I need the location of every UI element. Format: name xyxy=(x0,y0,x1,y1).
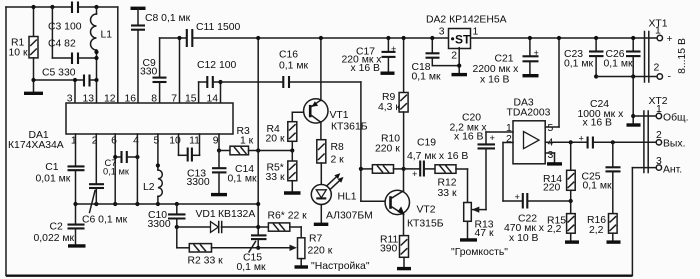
ground under R13 xyxy=(460,238,477,241)
capacitor C5 xyxy=(31,68,98,87)
svg-text:-: - xyxy=(668,72,671,83)
svg-text:C5 330: C5 330 xyxy=(42,68,76,79)
wire: DA2 pin 2 to ground xyxy=(457,48,461,73)
wire: DA1 pin 9 down xyxy=(218,134,220,151)
resistor R9 xyxy=(378,36,408,169)
svg-text:х 16 В: х 16 В xyxy=(480,75,510,86)
wire: DA3 pin 5 to supply rail xyxy=(545,36,561,127)
svg-text:х 16 В: х 16 В xyxy=(583,118,613,129)
ground under R11 xyxy=(397,267,411,270)
svg-text:Ант.: Ант. xyxy=(663,165,682,176)
svg-text:C4 82: C4 82 xyxy=(48,39,76,50)
capacitor C1 on DA1 pin 1 xyxy=(36,134,85,204)
ground under R16 xyxy=(607,240,621,243)
potentiometer R7 "Настройка" xyxy=(298,227,370,272)
svg-text:7: 7 xyxy=(171,94,177,105)
svg-text:12: 12 xyxy=(104,94,116,105)
IC DA1 К174ХА34А xyxy=(8,94,233,152)
capacitor C2 xyxy=(34,204,85,245)
resistor R11 xyxy=(380,235,409,268)
connector XT1 xyxy=(645,19,689,83)
svg-text:220 к: 220 к xyxy=(308,246,333,257)
resistor R6* xyxy=(258,211,307,232)
svg-text:х 16 В: х 16 В xyxy=(351,63,381,74)
svg-text:3: 3 xyxy=(439,27,445,38)
svg-text:220 к: 220 к xyxy=(375,144,400,155)
svg-text:3: 3 xyxy=(656,156,662,167)
svg-text:х 16 В: х 16 В xyxy=(454,132,484,143)
resistor R14 xyxy=(543,142,575,203)
svg-text:C6 0,1 мк: C6 0,1 мк xyxy=(82,215,128,226)
wire: vertical from XT1 minus to XT2 common xyxy=(631,77,635,124)
svg-text:47 к: 47 к xyxy=(475,228,494,239)
svg-text:16: 16 xyxy=(124,94,136,105)
wire: DA1 pin 14 up to C12 node xyxy=(218,80,222,103)
svg-text:АЛ307БМ: АЛ307БМ xyxy=(326,211,373,222)
svg-text:0,022 мк: 0,022 мк xyxy=(34,233,75,244)
capacitor C15 xyxy=(237,235,267,273)
capacitor C19 xyxy=(404,138,469,180)
wire: DA1 pin 4 down to rail xyxy=(136,134,138,204)
svg-text:C2: C2 xyxy=(50,222,64,233)
svg-text:6: 6 xyxy=(111,136,117,147)
svg-text:15: 15 xyxy=(185,94,197,105)
svg-text:2: 2 xyxy=(654,63,660,74)
varicap VD1 КВ132А xyxy=(175,209,259,233)
capacitor C13 between pins 10 and 11 xyxy=(179,134,210,188)
svg-text:+: + xyxy=(579,134,584,144)
capacitor C16 xyxy=(279,50,361,89)
wire: base bus x361 from y82 down to VT2 base xyxy=(359,82,386,201)
ground under HL1 xyxy=(314,223,329,226)
LED HL1 АЛ307БМ xyxy=(311,173,372,223)
wire: main horizontal rail y38 xyxy=(193,37,657,39)
capacitor C3 xyxy=(48,2,82,33)
svg-text:1: 1 xyxy=(473,27,479,38)
wire: minus wire y76.5 to XT1 pin 2 xyxy=(596,74,657,78)
wire: DA3 pin 4 output xyxy=(545,140,587,144)
svg-text:VD1: VD1 xyxy=(196,209,216,220)
svg-text:20 к: 20 к xyxy=(266,134,285,145)
svg-text:13: 13 xyxy=(82,94,94,105)
ground under C17 xyxy=(381,71,395,74)
wire: signal wire y82 from C12 node to C16 xyxy=(221,81,283,83)
resistor R4 xyxy=(266,122,297,153)
ground under C14 xyxy=(211,193,227,196)
svg-text:2: 2 xyxy=(451,51,457,62)
wire: DA1 pin 7 up to y38 rail xyxy=(177,36,181,103)
svg-text:5: 5 xyxy=(548,123,554,134)
svg-text:К174ХА34А: К174ХА34А xyxy=(8,140,64,151)
svg-text:C1: C1 xyxy=(45,162,59,173)
inductor L2 on DA1 pin 5 xyxy=(143,134,162,204)
svg-text:330: 330 xyxy=(140,67,158,78)
capacitor C14 xyxy=(212,151,257,194)
svg-text:R2 33 к: R2 33 к xyxy=(188,256,224,267)
audio amplifier DA3 TDA2003 xyxy=(506,98,553,164)
capacitor C22 xyxy=(504,192,571,244)
svg-text:ST: ST xyxy=(455,33,471,47)
ground under R5 xyxy=(284,191,301,194)
svg-text:14: 14 xyxy=(206,94,218,105)
svg-text:4,7 мк х 16 В: 4,7 мк х 16 В xyxy=(407,151,468,162)
svg-text:+: + xyxy=(391,44,396,54)
capacitor C23 xyxy=(564,36,604,79)
resistor R16 xyxy=(587,214,617,241)
svg-text:Вых.: Вых. xyxy=(663,139,685,150)
svg-text:C12 100: C12 100 xyxy=(197,60,237,71)
capacitor C9 on DA1 pin 8 xyxy=(140,38,186,103)
svg-text:3: 3 xyxy=(548,150,554,161)
svg-text:КВ132А: КВ132А xyxy=(218,209,255,220)
resistor R1 xyxy=(9,7,39,92)
voltage regulator DA2 КР142ЕН5А xyxy=(426,15,507,62)
svg-text:C11 1500: C11 1500 xyxy=(196,22,241,33)
wire: tuning vertical x258 xyxy=(256,36,260,235)
resistor R8 xyxy=(317,140,344,185)
svg-text:8: 8 xyxy=(151,94,157,105)
capacitor C18 xyxy=(412,36,460,83)
ground under C2 xyxy=(68,244,86,247)
svg-text:+: + xyxy=(534,48,539,58)
svg-text:VT2: VT2 xyxy=(417,205,436,216)
svg-text:TDA2003: TDA2003 xyxy=(507,108,551,119)
capacitor C7 between pins 6 and 4 xyxy=(103,151,139,177)
svg-text:11: 11 xyxy=(189,136,200,147)
resistor R10 xyxy=(361,134,406,174)
wire: R2 node to R7 wiper arrow xyxy=(258,245,297,251)
svg-text:0,1 мк: 0,1 мк xyxy=(583,181,612,192)
svg-text:0,1 мк: 0,1 мк xyxy=(228,174,257,185)
capacitor C26 xyxy=(604,36,641,77)
svg-text:C21: C21 xyxy=(495,54,514,65)
svg-text:+: + xyxy=(515,192,520,202)
capacitor C25 xyxy=(582,142,621,213)
svg-text:+: + xyxy=(667,34,673,45)
svg-text:R12: R12 xyxy=(438,178,457,189)
svg-text:0,1 мк: 0,1 мк xyxy=(412,72,441,83)
capacitor C8 with top chassis bar xyxy=(131,8,191,103)
svg-text:2200 мк х: 2200 мк х xyxy=(473,64,520,75)
capacitor C4 with branch wire xyxy=(48,7,97,64)
svg-text:х 10 В: х 10 В xyxy=(509,233,539,244)
ground under C21 xyxy=(523,74,539,77)
svg-text:0,1 мк: 0,1 мк xyxy=(103,167,130,177)
svg-text:220: 220 xyxy=(543,183,561,194)
svg-text:9: 9 xyxy=(213,136,219,147)
svg-text:0,1 мк: 0,1 мк xyxy=(237,262,266,273)
svg-text:1 к: 1 к xyxy=(240,136,254,147)
capacitor C24 xyxy=(578,99,657,149)
svg-text:2: 2 xyxy=(506,134,512,145)
svg-text:390: 390 xyxy=(380,244,398,255)
capacitor C12 on DA1 pin 15 xyxy=(197,60,237,103)
capacitor C21 xyxy=(473,36,539,86)
svg-text:КТ361Б: КТ361Б xyxy=(331,122,368,133)
svg-text:0,1 мк: 0,1 мк xyxy=(564,59,593,70)
svg-text:10 к: 10 к xyxy=(9,48,28,59)
ground under DA2 pin 2 xyxy=(452,73,468,76)
svg-text:R8: R8 xyxy=(331,142,345,153)
svg-text:3300: 3300 xyxy=(187,177,210,188)
transistor VT1 КТ361Б xyxy=(304,36,368,140)
capacitor C11 in supply wire xyxy=(187,22,241,47)
svg-text:1: 1 xyxy=(656,104,662,115)
svg-text:+: + xyxy=(490,133,495,143)
wire: DA1 pin 6 down to rail xyxy=(114,134,116,204)
ground under DA3 pin 3 xyxy=(547,162,562,165)
svg-text:4,3 к: 4,3 к xyxy=(378,102,400,113)
resistor R12 xyxy=(435,165,468,203)
resistor R3 xyxy=(217,126,292,155)
svg-text:"Громкость": "Громкость" xyxy=(451,247,508,258)
capacitor C6 on DA1 pin 2 xyxy=(82,134,128,226)
svg-text:2 к: 2 к xyxy=(331,155,345,166)
svg-text:R6* 22 к: R6* 22 к xyxy=(268,211,308,222)
resistor R2 xyxy=(177,227,258,267)
inductor L1 xyxy=(91,7,113,103)
node A: top rail junction dots xyxy=(31,5,98,9)
svg-text:R7: R7 xyxy=(309,234,323,245)
svg-text:+: + xyxy=(412,169,417,179)
svg-text:L2: L2 xyxy=(143,182,155,193)
svg-text:L1: L1 xyxy=(101,30,113,41)
ground at XT2 common xyxy=(627,123,641,126)
svg-text:2: 2 xyxy=(656,130,662,141)
svg-text:VT1: VT1 xyxy=(330,110,349,121)
svg-text:3: 3 xyxy=(67,94,73,105)
svg-text:3300: 3300 xyxy=(148,219,171,230)
svg-text:0,1 мк: 0,1 мк xyxy=(279,61,308,72)
svg-text:0,1 мк: 0,1 мк xyxy=(604,59,633,70)
svg-text:Общ.: Общ. xyxy=(663,112,688,124)
svg-text:КТ315Б: КТ315Б xyxy=(407,219,444,230)
resistor R15 xyxy=(547,201,575,241)
capacitor C10 xyxy=(148,204,186,230)
svg-text:2,2: 2,2 xyxy=(589,225,604,236)
svg-text:C8 0,1 мк: C8 0,1 мк xyxy=(145,13,191,24)
capacitor C20 xyxy=(450,113,514,210)
resistor R5* xyxy=(266,151,297,192)
transistor VT2 КТ315Б xyxy=(385,169,444,236)
wire: DA3 pin 2 feedback to C22 xyxy=(503,143,522,202)
potentiometer R13 "Громкость" xyxy=(451,203,508,259)
wire: DA1 pin 3 up to R1/C5 node xyxy=(73,78,77,103)
wire: VT1 base to R4 top corner xyxy=(292,112,310,121)
svg-text:33 к: 33 к xyxy=(438,188,457,199)
svg-text:DA2 КР142ЕН5А: DA2 КР142ЕН5А xyxy=(426,15,507,26)
ground under R7 xyxy=(295,265,309,268)
svg-text:2,2: 2,2 xyxy=(547,224,562,235)
svg-text:0,01 мк: 0,01 мк xyxy=(36,174,71,185)
ground under R15 xyxy=(565,240,579,243)
ground under R1 xyxy=(24,92,43,95)
svg-text:C19: C19 xyxy=(417,138,436,149)
connector XT2 xyxy=(632,96,688,176)
svg-text:C16: C16 xyxy=(279,50,298,61)
svg-text:HL1: HL1 xyxy=(338,192,357,203)
capacitor C17 xyxy=(342,36,397,74)
wire: common rail y204 under DA1 xyxy=(73,202,258,206)
svg-text:33 к: 33 к xyxy=(266,172,285,183)
svg-text:"Настройка": "Настройка" xyxy=(311,261,370,272)
wire: DA3 pin 3 to ground xyxy=(545,153,554,163)
svg-text:4: 4 xyxy=(133,136,139,147)
svg-text:8...15 В: 8...15 В xyxy=(677,38,688,74)
svg-text:1: 1 xyxy=(655,26,661,37)
